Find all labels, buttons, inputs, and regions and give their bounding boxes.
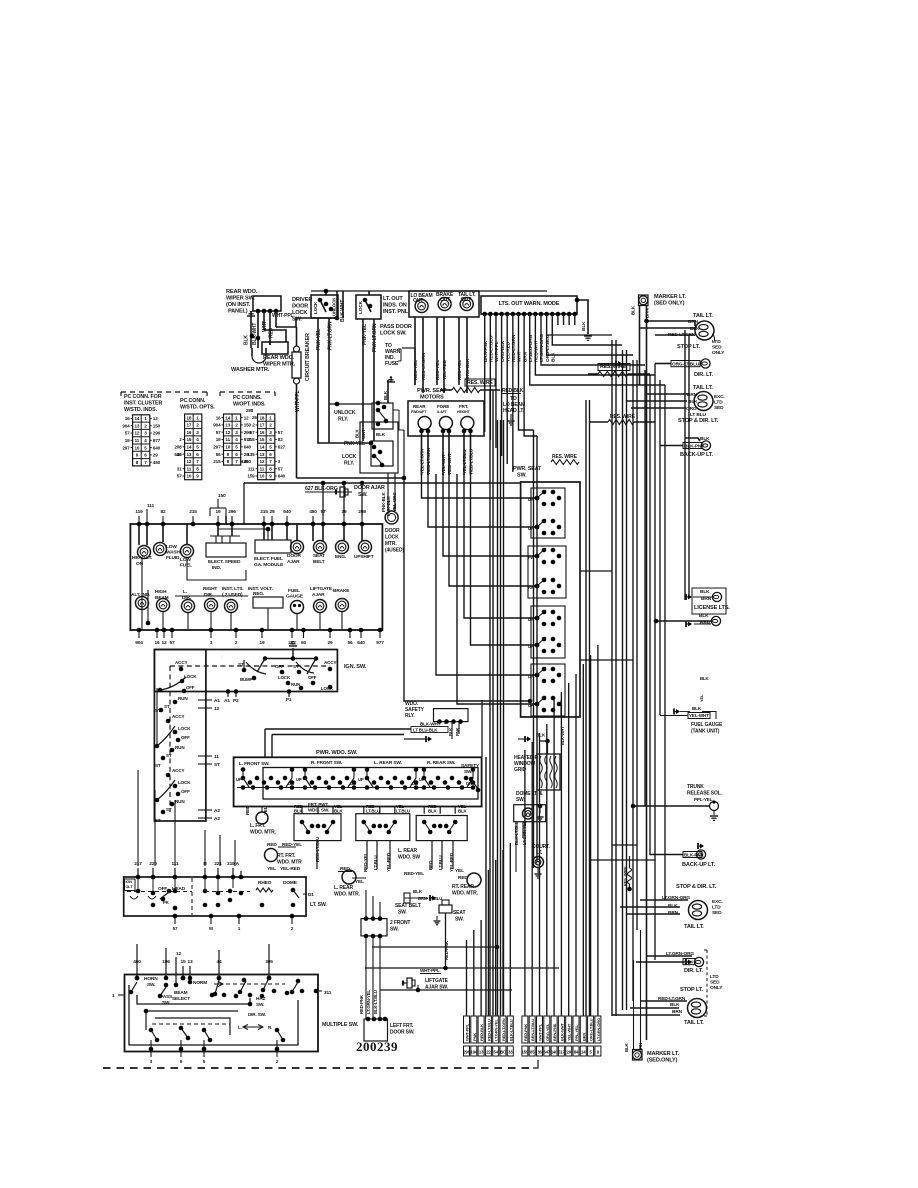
svg-text:640: 640 [357,640,365,646]
svg-text:BLK: BLK [551,352,557,362]
svg-text:AJAR SW.: AJAR SW. [425,985,449,991]
svg-text:14: 14 [186,445,191,450]
svg-text:RED-YEL: RED-YEL [413,360,419,380]
svg-text:SW.: SW. [390,927,399,933]
svg-text:WIPER SW.: WIPER SW. [226,296,255,302]
svg-text:P2: P2 [233,698,239,704]
svg-text:WHT-PPL: WHT-PPL [538,1023,543,1041]
svg-text:YEL-LT.BLU: YEL-LT.BLU [462,449,467,474]
svg-text:UPSHIFT: UPSHIFT [354,554,374,560]
svg-text:OUT: OUT [440,297,450,303]
svg-text:TRUNK: TRUNK [687,784,704,790]
svg-text:LTD: LTD [710,974,719,980]
svg-text:RIGHT: RIGHT [203,586,217,592]
svg-text:ACCY: ACCY [172,768,185,773]
svg-text:WHT-PPL: WHT-PPL [272,313,294,319]
svg-text:57: 57 [216,430,221,435]
svg-text:BLK: BLK [413,889,423,894]
svg-text:DOOR: DOOR [287,553,301,559]
svg-text:57: 57 [278,466,283,471]
svg-text:977: 977 [153,438,161,443]
svg-text:BRN: BRN [668,910,679,916]
svg-text:904: 904 [122,423,130,428]
svg-text:LT BLU-BLK: LT BLU-BLK [413,728,438,733]
svg-text:450: 450 [153,460,161,465]
svg-text:BRN-PNK: BRN-PNK [483,340,489,362]
svg-text:RT. REAR: RT. REAR [452,884,474,890]
svg-text:SED: SED [710,980,720,986]
svg-text:215: 215 [247,437,255,442]
svg-text:904: 904 [135,640,143,646]
svg-text:12: 12 [214,706,220,712]
svg-text:YEL-RED: YEL-RED [280,866,301,872]
svg-text:ST: ST [166,753,172,758]
svg-text:BLK: BLK [244,335,250,345]
svg-text:(SED.ONLY): (SED.ONLY) [647,1058,678,1064]
svg-text:ST: ST [293,664,299,669]
svg-text:YEL-RED: YEL-RED [386,852,391,872]
svg-text:LT.GRN-YEL: LT.GRN-YEL [366,990,371,1014]
svg-text:26: 26 [252,415,257,420]
svg-text:PNK-YEL: PNK-YEL [316,329,322,350]
svg-text:WHT-PPL: WHT-PPL [420,968,440,973]
svg-text:WHT-PPL: WHT-PPL [295,390,301,412]
svg-text:PWR. SEAT: PWR. SEAT [417,388,447,394]
svg-text:REAR WDO.: REAR WDO. [263,355,295,361]
svg-text:57: 57 [173,926,178,931]
svg-text:DOOR: DOOR [292,304,308,310]
svg-text:STOP & DIR. LT.: STOP & DIR. LT. [676,884,717,890]
svg-text:ORG-BLK: ORG-BLK [500,340,506,362]
svg-text:15: 15 [180,959,186,965]
svg-text:BELT: BELT [313,559,325,565]
svg-text:A1: A1 [214,698,220,704]
svg-text:RES. WIRE: RES. WIRE [467,380,493,386]
svg-text:EXC.: EXC. [714,394,725,400]
svg-text:STOP & DIR. LT.: STOP & DIR. LT. [678,418,719,424]
svg-text:ST: ST [214,762,220,768]
svg-text:YEL-RED: YEL-RED [505,341,511,362]
svg-text:LEFT FRT.: LEFT FRT. [390,1023,414,1029]
svg-text:SEAT: SEAT [313,553,325,559]
svg-text:FRT.: FRT. [459,404,468,409]
svg-text:SELECT: SELECT [172,996,190,1002]
svg-text:ST: ST [164,704,170,709]
svg-text:RHEO: RHEO [258,880,272,886]
svg-text:BLK: BLK [690,326,700,332]
svg-text:BRN: BRN [581,1033,586,1041]
svg-text:BLK-LT.BLU: BLK-LT.BLU [373,990,378,1014]
svg-text:REAR WDO.: REAR WDO. [226,289,258,295]
svg-text:UP: UP [236,777,242,782]
svg-text:PANEL): PANEL) [228,309,248,315]
svg-text:REG.: REG. [253,591,264,597]
svg-text:BLK: BLK [624,1042,629,1052]
svg-text:10: 10 [259,474,264,479]
svg-text:GA. MODULE: GA. MODULE [254,562,284,568]
svg-text:296: 296 [153,431,161,436]
svg-text:ONLY: ONLY [710,985,723,991]
svg-text:82: 82 [278,437,283,442]
svg-text:BLK: BLK [334,809,344,814]
svg-text:OUT: OUT [413,298,423,304]
svg-text:627 BLK-ORG: 627 BLK-ORG [305,486,338,492]
svg-text:15: 15 [259,437,264,442]
svg-text:PNK-LT.GRN: PNK-LT.GRN [372,323,378,352]
svg-text:LT.BLU-ORG: LT.BLU-ORG [528,334,534,362]
svg-text:LOCK SW.: LOCK SW. [380,331,407,337]
svg-text:( 2 USED): ( 2 USED) [222,592,243,598]
svg-text:215: 215 [260,509,268,515]
svg-text:BLK-LT.BLU: BLK-LT.BLU [508,1019,513,1041]
svg-text:11: 11 [226,437,231,442]
svg-text:200239: 200239 [356,1039,398,1054]
svg-text:OFF: OFF [186,685,195,690]
svg-text:640: 640 [283,509,291,515]
svg-text:YEL-LT.GRN: YEL-LT.GRN [420,448,425,474]
svg-text:BLK-WHT: BLK-WHT [252,323,258,345]
svg-text:13: 13 [134,423,139,428]
svg-text:(SED ONLY): (SED ONLY) [654,301,685,307]
svg-text:LOCK: LOCK [342,454,357,460]
svg-text:ONLY: ONLY [712,350,725,356]
svg-text:RED-LT.BLU: RED-LT.BLU [486,1019,491,1041]
svg-text:SW.: SW. [147,982,155,988]
svg-text:LOCK: LOCK [178,780,191,785]
svg-text:SW.: SW. [516,797,525,803]
svg-text:RED-YEL: RED-YEL [457,360,463,380]
svg-text:296: 296 [463,1050,470,1055]
svg-text:130: 130 [241,459,249,464]
svg-text:FUEL GAUGE: FUEL GAUGE [691,722,723,728]
svg-text:13: 13 [259,452,264,457]
svg-text:ST: ST [238,662,244,667]
svg-text:BC: BC [500,1050,506,1055]
svg-text:R. REAR SW.: R. REAR SW. [427,760,455,766]
svg-text:BLK: BLK [458,809,468,814]
svg-text:640: 640 [153,445,161,450]
svg-text:WHT: WHT [517,351,523,362]
svg-text:BRN: BRN [688,319,699,325]
svg-text:OLT: OLT [126,885,134,889]
svg-text:29: 29 [153,453,158,458]
svg-text:977: 977 [376,640,384,646]
svg-text:29: 29 [269,509,275,515]
svg-text:RED-LT.GRN: RED-LT.GRN [511,334,517,362]
svg-text:LIFTGATE: LIFTGATE [310,586,333,592]
svg-text:16: 16 [125,416,130,421]
svg-text:BLK: BLK [355,428,360,438]
svg-text:12: 12 [161,640,167,646]
svg-text:11: 11 [214,754,219,760]
svg-text:12: 12 [153,416,158,421]
svg-text:RELEASE SOL.: RELEASE SOL. [687,791,723,797]
svg-text:WASH: WASH [166,550,180,556]
svg-text:M: M [209,926,213,931]
svg-text:MARKER LT.: MARKER LT. [654,294,687,300]
svg-text:ST: ST [166,807,172,812]
svg-text:14: 14 [225,415,230,420]
svg-text:OFF: OFF [181,735,190,740]
svg-text:FWD/AFT: FWD/AFT [411,410,427,414]
svg-text:L. FRT.: L. FRT. [250,823,266,829]
svg-text:150: 150 [218,493,226,499]
svg-text:STOP LT.: STOP LT. [680,987,703,993]
svg-text:YEL: YEL [267,866,276,872]
svg-text:DIR. SW.: DIR. SW. [248,1012,266,1017]
svg-text:HIGH: HIGH [155,589,167,595]
svg-text:LT.BLU: LT.BLU [396,809,410,814]
svg-text:LOCK: LOCK [385,535,399,541]
svg-text:60: 60 [301,640,307,646]
svg-text:L. REAR SW.: L. REAR SW. [374,760,402,766]
svg-text:11: 11 [135,438,140,443]
svg-text:PC CONN.: PC CONN. [180,398,206,404]
svg-text:RED-YEL: RED-YEL [435,360,441,380]
svg-text:12: 12 [259,459,264,464]
svg-text:P1: P1 [286,697,292,703]
svg-text:RUN: RUN [175,799,185,804]
svg-text:LOCK: LOCK [358,300,364,314]
svg-text:159: 159 [522,1050,529,1055]
svg-text:YEL-WHT: YEL-WHT [441,454,446,474]
svg-text:FORE: FORE [437,404,449,409]
svg-text:PPL-YEL: PPL-YEL [694,797,713,802]
svg-text:DOOR SW.: DOOR SW. [390,1030,415,1036]
svg-text:SEAT: SEAT [453,910,465,916]
svg-text:BLK: BLK [692,706,702,711]
svg-text:INST. LTS.: INST. LTS. [222,586,244,592]
svg-text:DOME: DOME [283,880,298,886]
svg-text:297: 297 [288,640,296,646]
svg-text:140: 140 [551,1050,558,1055]
svg-text:ST: ST [155,818,161,823]
svg-text:DN: DN [466,781,472,786]
svg-text:RED-LT.GRN: RED-LT.GRN [421,352,427,380]
svg-text:13: 13 [225,423,230,428]
svg-text:LTD: LTD [714,400,723,406]
svg-text:HEIGHT: HEIGHT [457,410,471,414]
svg-text:15: 15 [186,437,191,442]
svg-text:SED: SED [712,910,722,916]
svg-text:LICENSE LTS.: LICENSE LTS. [694,605,730,611]
svg-text:18: 18 [259,415,264,420]
svg-text:UP: UP [419,777,425,782]
svg-text:ORG-LT.BLU: ORG-LT.BLU [589,1018,594,1041]
svg-text:RED-YEL: RED-YEL [404,871,424,877]
svg-text:LTS. OUT WARN. MODE: LTS. OUT WARN. MODE [499,301,560,307]
svg-text:311: 311 [324,990,332,996]
svg-text:57: 57 [250,430,255,435]
svg-text:BUMP: BUMP [240,677,253,682]
svg-text:297: 297 [122,445,130,450]
svg-text:TAIL LT.: TAIL LT. [684,1020,704,1026]
svg-text:L.: L. [183,589,187,595]
svg-text:LT.BLU: LT.BLU [438,855,443,870]
svg-text:904: 904 [213,423,221,428]
svg-text:LOCK: LOCK [313,301,318,314]
svg-text:RED-PNK: RED-PNK [359,994,364,1014]
svg-text:119: 119 [135,509,143,515]
svg-text:PNK: PNK [472,1033,477,1041]
svg-text:208: 208 [174,445,182,450]
svg-text:PASS DOOR: PASS DOOR [380,324,412,330]
svg-text:OFF: OFF [308,675,317,680]
svg-text:RED-LT.BLU: RED-LT.BLU [469,448,474,474]
svg-text:19: 19 [215,509,221,515]
svg-text:SED: SED [714,405,724,411]
svg-text:11: 11 [260,466,265,471]
svg-text:219 A: 219 A [227,861,240,867]
svg-text:12: 12 [225,430,230,435]
svg-text:RED-LT.BLU: RED-LT.BLU [315,836,320,862]
svg-text:A2: A2 [214,808,220,814]
svg-text:BRAKE: BRAKE [333,588,350,594]
svg-text:57: 57 [169,640,175,646]
svg-text:BLK: BLK [631,305,636,315]
svg-text:14: 14 [134,416,139,421]
svg-text:PNK-YEL: PNK-YEL [344,441,365,447]
svg-text:AJAR: AJAR [312,592,325,598]
svg-text:WDO. SW: WDO. SW [398,855,420,861]
svg-text:57: 57 [177,474,182,479]
svg-text:17: 17 [259,423,264,428]
svg-text:BLK: BLK [376,432,386,437]
svg-text:SW.: SW. [398,910,407,916]
svg-text:W/STD. INDS.: W/STD. INDS. [124,407,158,413]
svg-text:YEL-WHT: YEL-WHT [689,713,709,718]
svg-text:BLK: BLK [700,589,710,595]
svg-text:FUEL: FUEL [288,588,300,594]
svg-text:RED-PNK: RED-PNK [523,1024,528,1041]
svg-text:L. REAR: L. REAR [398,848,417,854]
svg-text:A1: A1 [224,698,230,704]
svg-text:DOOR: DOOR [385,528,400,534]
svg-text:16: 16 [154,640,160,646]
svg-text:ELECT. SPEED: ELECT. SPEED [208,559,241,565]
svg-text:640: 640 [244,445,252,450]
svg-text:19: 19 [216,437,221,442]
svg-text:GAUGE: GAUGE [286,594,304,600]
svg-text:LT.GRN-ORG: LT.GRN-ORG [539,334,545,362]
svg-text:DIR. LT.: DIR. LT. [684,968,703,974]
svg-text:YEL-WHT: YEL-WHT [567,1023,572,1041]
svg-text:17: 17 [186,423,191,428]
svg-text:A2: A2 [214,816,220,822]
svg-text:RUN: RUN [175,745,185,750]
svg-text:19: 19 [259,640,265,646]
svg-text:DN: DN [412,781,418,786]
svg-text:159: 159 [247,474,255,479]
svg-text:CIRCUIT BREAKER: CIRCUIT BREAKER [305,333,311,381]
svg-text:FLUID: FLUID [166,555,180,561]
svg-text:LOCK: LOCK [184,674,197,679]
svg-text:BLK-WHT: BLK-WHT [559,1023,564,1041]
svg-text:INDS. ON: INDS. ON [383,303,407,309]
svg-text:BLK: BLK [670,1002,680,1008]
svg-text:ORG: ORG [686,406,697,412]
svg-text:221: 221 [214,861,222,867]
svg-text:RED-WHT: RED-WHT [447,453,452,474]
svg-text:LOCK: LOCK [178,726,191,731]
svg-text:EXC.: EXC. [712,899,723,905]
svg-text:BACK-UP LT.: BACK-UP LT. [682,862,716,868]
svg-text:220: 220 [149,861,157,867]
svg-text:DRIVER: DRIVER [292,297,312,303]
svg-text:BLK-WHT: BLK-WHT [420,722,441,727]
svg-text:PWR. WDO. SW.: PWR. WDO. SW. [316,750,358,756]
svg-text:(4USED): (4USED) [385,548,404,554]
svg-text:215: 215 [189,509,197,515]
svg-text:TAIL LT.: TAIL LT. [693,385,713,391]
svg-text:82: 82 [160,509,166,515]
svg-text:BRN: BRN [672,1009,683,1015]
svg-text:57: 57 [278,430,283,435]
svg-text:ORG-YEL: ORG-YEL [545,1023,550,1041]
svg-text:BLK: BLK [428,809,438,814]
svg-text:ST: ST [155,763,161,768]
svg-text:OFF: OFF [181,789,190,794]
svg-text:W/OPT. INDS.: W/OPT. INDS. [233,402,266,408]
svg-text:DOOR AJAR: DOOR AJAR [354,485,385,491]
svg-text:12: 12 [134,431,139,436]
svg-text:YEL-RED: YEL-RED [449,852,454,872]
svg-text:MULTIPLE SW.: MULTIPLE SW. [322,1022,359,1028]
svg-text:BRN-LT.BLU: BRN-LT.BLU [530,1019,535,1041]
svg-text:INST. CLUSTER: INST. CLUSTER [124,401,162,407]
svg-text:R.: R. [268,1025,272,1030]
svg-text:LT.GRN-ORG: LT.GRN-ORG [596,1018,601,1041]
svg-text:19: 19 [125,438,130,443]
svg-text:(ON INST.: (ON INST. [226,302,251,308]
svg-text:12: 12 [244,415,249,420]
svg-text:LOCK: LOCK [278,675,291,680]
svg-text:29: 29 [327,640,333,646]
svg-text:BEAM: BEAM [174,990,188,996]
svg-text:D1: D1 [308,892,314,897]
svg-text:RED-YEL: RED-YEL [282,842,302,848]
svg-text:16: 16 [186,430,191,435]
svg-text:RED-WHT: RED-WHT [534,340,540,362]
svg-text:298: 298 [246,408,254,413]
svg-text:YEL: YEL [699,694,704,702]
svg-text:WHT-PPL: WHT-PPL [494,341,500,362]
svg-text:ORG-LT.BLU: ORG-LT.BLU [545,334,551,362]
svg-text:297: 297 [213,445,221,450]
svg-text:REAR: REAR [413,404,426,409]
svg-text:WDO. MTR.: WDO. MTR. [334,892,361,898]
svg-text:RUN: RUN [291,682,300,687]
svg-text:RT. FRT.: RT. FRT. [277,853,296,859]
svg-text:& AFT: & AFT [437,410,448,414]
svg-text:L. REAR: L. REAR [334,885,353,891]
svg-text:296: 296 [228,509,236,515]
svg-text:LT.GRN-YEL: LT.GRN-YEL [494,1019,499,1041]
svg-text:TAIL LT.: TAIL LT. [693,313,713,319]
svg-text:HEAD LT.: HEAD LT. [503,408,525,414]
svg-text:14: 14 [259,445,264,450]
svg-text:WDO. MTR.: WDO. MTR. [452,891,479,897]
svg-text:WDO. MTR: WDO. MTR [277,860,302,866]
svg-text:R. FRONT SW.: R. FRONT SW. [311,760,342,766]
svg-text:RED: RED [267,842,277,848]
svg-text:BRN: BRN [522,351,528,362]
svg-text:SW.: SW. [292,317,302,323]
svg-text:640: 640 [174,452,182,457]
svg-text:18: 18 [186,415,191,420]
svg-text:135: 135 [247,452,255,457]
svg-text:BLK: BLK [383,390,388,400]
